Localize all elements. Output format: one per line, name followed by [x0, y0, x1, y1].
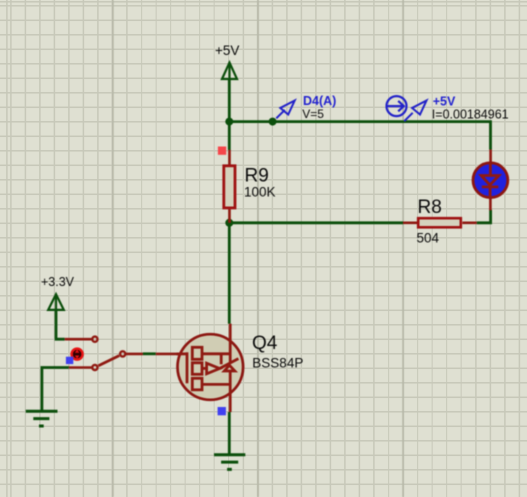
svg-text:Q4: Q4 [252, 333, 278, 354]
svg-text:BSS84P: BSS84P [252, 355, 303, 370]
svg-text:R9: R9 [245, 166, 269, 187]
svg-text:D4(A): D4(A) [303, 94, 336, 108]
svg-text:I=0.00184961: I=0.00184961 [432, 108, 509, 122]
svg-text:+5V: +5V [215, 43, 239, 58]
svg-text:+3.3V: +3.3V [41, 275, 75, 289]
svg-text:504: 504 [417, 231, 440, 246]
svg-text:R8: R8 [418, 197, 442, 218]
svg-text:100K: 100K [244, 185, 276, 200]
svg-text:V=5: V=5 [302, 107, 324, 121]
svg-text:+5V: +5V [433, 95, 456, 109]
